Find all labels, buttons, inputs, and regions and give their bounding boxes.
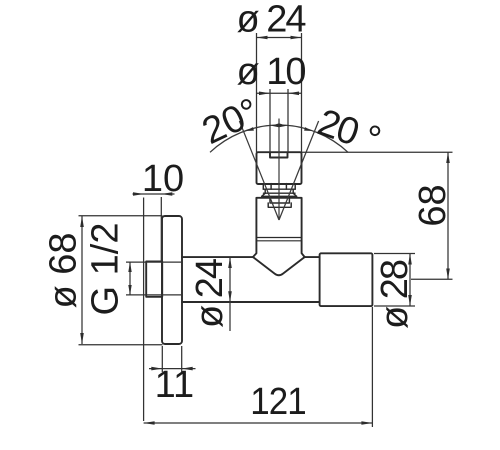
o24 top extension lines [257,33,302,152]
svg-text:11: 11 [155,364,194,406]
dim 11 extensions [162,346,181,372]
svg-text:121: 121 [250,380,306,423]
68 dim line [447,152,449,279]
o10 dim line [257,92,302,94]
tube top edge [182,256,320,258]
o24 top dim line [257,37,302,39]
tube bottom edge [182,301,320,303]
thin object lines [210,119,348,221]
aerator rings [262,184,297,197]
svg-text:ø 10: ø 10 [236,51,305,93]
svg-text:ø 28: ø 28 [374,260,416,329]
svg-text:20°: 20° [196,91,266,153]
vertical body sides with chamfer feet [253,198,305,257]
dim 10 line [133,193,175,195]
seat rect upper [270,198,289,203]
svg-text:ø 24: ø 24 [236,0,306,41]
seat rect lower [268,203,291,207]
svg-text:G 1/2: G 1/2 [85,223,127,316]
valve body top edge [257,197,302,199]
center line [278,119,280,221]
o10 extension lines [270,89,288,152]
68 connector lines [302,152,453,279]
G1/2 dim line [129,262,131,295]
11 arrows (outside) [151,367,162,371]
arrowheads [80,36,450,425]
svg-text:ø 24: ø 24 [189,258,231,328]
cone slant left [239,121,279,220]
o28 arrows [408,254,412,265]
dimension lines and extension lines [79,33,453,427]
dim 10 extensions [144,197,162,421]
dim 10 arrows (outside) [133,192,144,196]
V notch at tube/body junction [253,257,305,275]
svg-text:68: 68 [412,184,454,226]
cone slant right [279,121,319,220]
flange (wall plate) [162,216,182,344]
o68 extensions [79,216,163,345]
svg-text:ø 68: ø 68 [43,232,85,308]
dim 11 line [149,368,196,370]
20deg arc arrows at centerline [271,123,279,127]
o24 mid arrows [228,257,232,268]
20deg arc arrows at slants [246,127,254,131]
G1/2 threaded stub [146,261,162,296]
outlet cylinder o28 [320,253,373,306]
dimension texts [43,0,455,422]
G1/2 arrows [128,262,131,272]
cap notch [270,153,288,158]
o24 mid dim line [229,257,231,331]
121 arrows [144,421,155,425]
svg-text:10: 10 [142,158,184,200]
o68 arrows [80,216,84,227]
spout cap rect [257,152,302,184]
dim 121 right extension [371,307,373,427]
swing arc [210,125,348,152]
o68 dim line [81,216,83,344]
o28 extensions [374,254,415,307]
o24 top arrows [257,36,268,40]
dim 121 line [144,422,373,424]
G1/2 extensions [126,262,181,295]
68 arrows [446,152,450,163]
o28 dim line [409,254,411,307]
body thin band lines [257,238,301,241]
o10 arrows (outside) [259,92,270,96]
